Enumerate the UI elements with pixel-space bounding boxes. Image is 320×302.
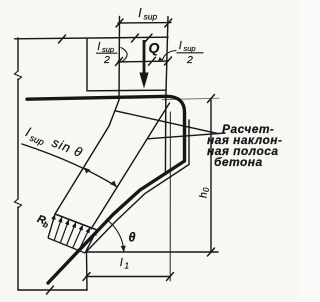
svg-text:sup: sup	[184, 44, 196, 53]
svg-text:бетона: бетона	[214, 155, 263, 169]
svg-text:Q: Q	[149, 40, 160, 56]
svg-text:0: 0	[202, 187, 211, 192]
svg-text:θ: θ	[129, 231, 136, 245]
svg-text:sup: sup	[144, 12, 158, 22]
svg-text:1: 1	[125, 262, 129, 271]
svg-text:2: 2	[103, 54, 110, 66]
svg-text:l: l	[139, 6, 142, 20]
svg-text:2: 2	[186, 54, 193, 66]
